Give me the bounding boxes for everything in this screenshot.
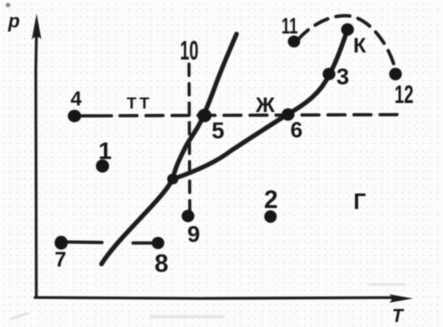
svg-text:6: 6 bbox=[290, 118, 302, 143]
svg-text:T: T bbox=[392, 306, 405, 326]
svg-text:К: К bbox=[353, 34, 366, 57]
svg-text:Ж: Ж bbox=[255, 94, 276, 117]
svg-text:4: 4 bbox=[70, 89, 82, 111]
svg-text:1: 1 bbox=[98, 138, 111, 165]
svg-text:10: 10 bbox=[180, 36, 199, 66]
svg-text:5: 5 bbox=[212, 118, 225, 144]
svg-text:ТТ: ТТ bbox=[127, 96, 153, 113]
svg-text:11: 11 bbox=[281, 14, 298, 39]
svg-text:8: 8 bbox=[154, 250, 168, 278]
svg-text:p: p bbox=[7, 12, 20, 33]
svg-text:12: 12 bbox=[395, 81, 414, 109]
svg-text:3: 3 bbox=[336, 64, 349, 90]
svg-text:Г: Г bbox=[353, 189, 366, 214]
svg-text:7: 7 bbox=[55, 249, 67, 272]
svg-text:2: 2 bbox=[264, 186, 278, 214]
svg-text:9: 9 bbox=[187, 221, 200, 247]
